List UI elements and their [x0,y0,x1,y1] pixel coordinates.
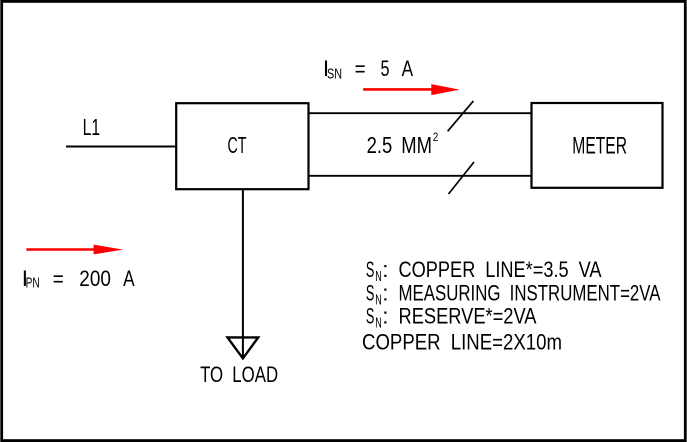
svg-text::: : [382,281,388,306]
break mark bottom wire [449,162,475,194]
svg-text:PN: PN [26,274,40,291]
svg-text:N: N [375,268,382,285]
break mark top wire [448,101,474,131]
svg-text::: : [382,304,388,329]
wire CT to load [242,189,244,356]
svg-text:METER: METER [572,132,627,159]
transformer CT [176,103,308,189]
svg-text::: : [382,257,388,282]
wire CT to METER top [309,112,532,114]
svg-text:COPPER LINE*=3.5 VA: COPPER LINE*=3.5 VA [399,257,602,282]
svg-text:N: N [375,292,382,309]
current arrow ISN (red) [363,88,436,91]
svg-text:S: S [366,281,375,306]
svg-text:200: 200 [79,266,111,291]
svg-text:S: S [366,304,375,329]
svg-text:=: = [355,56,366,81]
svg-text:COPPER LINE=2X10m: COPPER LINE=2X10m [362,329,562,354]
wire L1 to CT [66,146,177,148]
svg-text:CT: CT [228,132,247,158]
svg-text:2: 2 [433,130,439,144]
wire CT to METER bottom [309,175,532,177]
svg-text:S: S [366,257,375,282]
svg-text:MEASURING INSTRUMENT=2VA: MEASURING INSTRUMENT=2VA [399,281,661,306]
arrowhead to load (open triangle) [228,337,259,358]
svg-text:L1: L1 [83,114,101,140]
svg-text:2.5 MM: 2.5 MM [367,132,432,158]
svg-text:5: 5 [381,56,390,81]
current arrow IPN (red) [26,248,98,251]
svg-text:A: A [123,266,135,291]
svg-text:SN: SN [327,65,342,82]
svg-text:=: = [53,266,64,291]
svg-text:TO LOAD: TO LOAD [200,362,278,387]
svg-text:A: A [402,56,414,81]
meter U1 [532,103,663,188]
svg-text:RESERVE*=2VA: RESERVE*=2VA [399,304,537,329]
